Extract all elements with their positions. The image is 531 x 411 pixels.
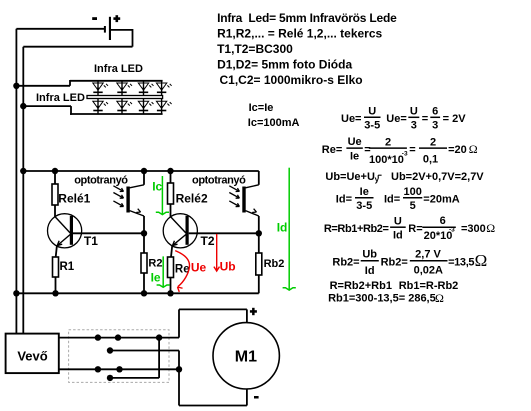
current arrow Ie (162, 256, 164, 286)
resistor Rb2 (256, 253, 262, 275)
infrared LED D1 (93, 83, 103, 90)
svg-text:2: 2 (385, 136, 391, 148)
wire T1 base (73, 232, 144, 234)
wire battery plus right (111, 29, 133, 31)
svg-text:Id=: Id= (336, 193, 352, 205)
svg-text:Infra Led= 5mm Infravörös Led: Infra Led= 5mm Infravörös Lede (217, 11, 397, 25)
LED strip bottom rail (70, 113, 163, 115)
battery B1 (104, 26, 106, 33)
resistor Re (168, 257, 174, 278)
node top bus / plus rail (20, 168, 26, 174)
svg-text:5: 5 (410, 200, 416, 212)
wire T2 base (189, 232, 259, 234)
voltage arrow Ue (175, 251, 189, 287)
svg-text:T1: T1 (84, 234, 98, 248)
pin row1 b (115, 334, 121, 340)
wire connector row2 (110, 350, 179, 352)
svg-text:=300: =300 (461, 223, 486, 235)
pin row3 a (95, 366, 101, 372)
svg-text:= 2V: = 2V (443, 113, 467, 125)
svg-text:=: = (422, 113, 428, 125)
node top bus / Rele1 (52, 168, 58, 174)
svg-text:Rb2=: Rb2= (332, 257, 359, 269)
label motor minus (254, 396, 259, 399)
svg-text:optotranyó: optotranyó (74, 174, 128, 186)
svg-text:6: 6 (440, 215, 446, 227)
wire motor minus bottom (246, 389, 248, 406)
svg-text:y: y (375, 175, 380, 184)
wire Rele2 top stub (170, 171, 172, 183)
transistor T2 (163, 214, 197, 248)
svg-text:R=Rb2+Rb1: R=Rb2+Rb1 (330, 280, 392, 292)
svg-text:T1,T2=BC300: T1,T2=BC300 (217, 42, 293, 56)
svg-text:U: U (410, 105, 418, 117)
LED strip middle bar (87, 96, 163, 99)
svg-text:Ic=Ie: Ic=Ie (249, 102, 274, 114)
svg-text:Ie: Ie (151, 270, 161, 284)
svg-text:=13,5: =13,5 (448, 257, 474, 269)
infrared LED D6 (117, 101, 127, 108)
pin row1 c (156, 334, 162, 340)
infrared LED D5 (93, 101, 103, 108)
wire R2 top stub (143, 233, 145, 253)
svg-text:3: 3 (432, 120, 438, 132)
svg-text:Ue: Ue (191, 260, 207, 274)
node bottom bus / R2 (141, 290, 147, 296)
current arrow Ic (161, 176, 163, 214)
node motor minus junction (176, 366, 182, 372)
svg-text:100*10: 100*10 (369, 154, 404, 166)
current arrow Id (288, 168, 290, 290)
node T2 base / opto2 / Rb2 (256, 230, 262, 236)
pin row1 a (95, 334, 101, 340)
wire Rb2 top stub (258, 233, 260, 253)
svg-text:0,1: 0,1 (423, 154, 438, 166)
resistor Rele1 (52, 184, 58, 205)
svg-text:2: 2 (430, 136, 436, 148)
wire to LED top rail (16, 85, 70, 87)
svg-text:-3: -3 (449, 226, 455, 233)
svg-text:Ub: Ub (362, 249, 377, 261)
receiver box Vevo (6, 334, 59, 374)
pin row4 (107, 375, 113, 381)
connector outline (dashed) (69, 330, 169, 383)
svg-text:R2: R2 (148, 257, 162, 269)
svg-text:=20: =20 (448, 144, 467, 156)
infrared LED D7 (138, 101, 148, 108)
svg-text:C1,C2= 1000mikro-s Elko: C1,C2= 1000mikro-s Elko (220, 73, 363, 87)
svg-text:Rb1=300-13,5= 286,5: Rb1=300-13,5= 286,5 (328, 293, 436, 305)
transistor T1 (48, 214, 82, 248)
svg-text:3: 3 (411, 120, 417, 132)
node minus rail to LED top rail (13, 83, 19, 89)
infrared LED D4 (156, 83, 166, 90)
svg-text:Ue=: Ue= (341, 113, 362, 125)
node bottom bus / R1 (52, 290, 58, 296)
wire row1 to row4 link (158, 338, 160, 378)
svg-text:R=: R= (408, 223, 422, 235)
svg-text:U: U (368, 105, 376, 117)
infrared LED D8 (156, 101, 166, 108)
svg-text:Ue: Ue (348, 136, 362, 148)
svg-text:Ub: Ub (220, 259, 236, 273)
svg-text:R1: R1 (60, 261, 75, 273)
opto-transistor U1 (126, 187, 129, 213)
svg-text:Ue=: Ue= (386, 113, 407, 125)
svg-text:Ie: Ie (360, 186, 369, 198)
wire connector row3 (59, 368, 179, 370)
wire bottom bus (16, 292, 258, 294)
svg-text:Vevő: Vevő (17, 349, 47, 364)
wire top supply bus (23, 170, 258, 172)
svg-text:optotranyó: optotranyó (192, 174, 246, 186)
svg-text:D1,D2= 5mm foto Dióda: D1,D2= 5mm foto Dióda (217, 57, 352, 71)
svg-text:0,02A: 0,02A (414, 265, 443, 277)
svg-text:=: = (409, 144, 415, 156)
svg-text:M1: M1 (235, 349, 257, 366)
wire Rele1 to T1 (54, 205, 56, 217)
wire to LED bottom rail (23, 105, 71, 107)
opto-transistor U2 (242, 187, 245, 213)
svg-text:Ub=Ue+U: Ub=Ue+U (325, 171, 375, 183)
node bottom bus / Re (167, 290, 173, 296)
svg-text:Ω: Ω (475, 251, 488, 270)
node top bus / Rele2 (167, 168, 173, 174)
resistor R1 (53, 257, 59, 277)
wire motor plus vertical (178, 309, 180, 337)
svg-text:Id: Id (277, 220, 288, 234)
svg-text:Infra LED: Infra LED (94, 63, 143, 75)
svg-text:R=Rb1+Rb2=: R=Rb1+Rb2= (324, 223, 389, 235)
resistor Rele2 (168, 183, 174, 204)
node plus rail to LED bottom rail (20, 103, 26, 109)
label motor plus (250, 310, 257, 313)
wire battery minus to left rail (16, 28, 104, 30)
svg-text:T2: T2 (201, 234, 215, 248)
svg-text:Relé1: Relé1 (58, 191, 90, 205)
motor M1 (213, 323, 279, 389)
wire motor plus top (179, 308, 247, 310)
node T1 base / opto1 / R2 (141, 230, 147, 236)
svg-text:Ic: Ic (152, 180, 162, 194)
wire left minus rail (15, 29, 17, 335)
svg-text:Rb1=R-Rb2: Rb1=R-Rb2 (399, 280, 459, 292)
svg-text:Id=: Id= (384, 193, 400, 205)
svg-text:U: U (394, 215, 402, 227)
svg-text:Relé2: Relé2 (176, 191, 208, 205)
wire Rele1 top stub (54, 171, 56, 184)
svg-text:Infra LED: Infra LED (36, 92, 85, 104)
wire Rele2 to T2 (170, 204, 172, 217)
pin row3 b (116, 366, 122, 372)
battery B1 plus label (113, 17, 120, 20)
wire connector row1 (59, 337, 179, 339)
resistor R2 (141, 253, 147, 273)
svg-text:Rb2: Rb2 (264, 258, 285, 270)
svg-text:R1,R2,... = Relé 1,2,... teker: R1,R2,... = Relé 1,2,... tekercs (217, 27, 382, 41)
svg-text:Re=: Re= (322, 144, 343, 156)
infrared LED D2 (117, 83, 127, 90)
svg-text:6: 6 (432, 105, 438, 117)
wire R2 bottom stub (143, 273, 145, 293)
svg-text:3-5: 3-5 (364, 120, 380, 132)
wire Re bottom stub (170, 278, 172, 294)
node top bus / opto1 (141, 168, 147, 174)
svg-text:Ie: Ie (350, 150, 359, 162)
svg-text:Ub=2V+0,7V=2,7V: Ub=2V+0,7V=2,7V (391, 171, 484, 183)
wire R1 bottom stub (55, 277, 57, 293)
svg-text:Ω: Ω (435, 291, 444, 305)
svg-text:Rb2=: Rb2= (381, 257, 408, 269)
LED strip top rail (70, 80, 163, 82)
svg-text:=20mA: =20mA (423, 193, 459, 205)
svg-text:Ω: Ω (469, 142, 478, 156)
svg-text:Ω: Ω (486, 221, 495, 235)
wire Rb2 bottom stub (258, 275, 260, 293)
svg-text:3-5: 3-5 (356, 200, 372, 212)
svg-text:2,7 V: 2,7 V (415, 249, 441, 261)
voltage arrow Ub (216, 234, 218, 271)
svg-text:Id: Id (365, 265, 375, 277)
battery B1 minus label (92, 17, 97, 20)
svg-text:Ic=100mA: Ic=100mA (248, 117, 300, 129)
svg-text:Id: Id (393, 230, 403, 242)
pin row2 (107, 347, 113, 353)
infrared LED D3 (138, 83, 148, 90)
svg-text:-3: -3 (402, 150, 408, 157)
svg-text:100: 100 (403, 186, 421, 198)
wire connector row4 (110, 377, 159, 379)
node bottom bus / minus rail (13, 290, 19, 296)
wire right plus rail (22, 47, 24, 335)
